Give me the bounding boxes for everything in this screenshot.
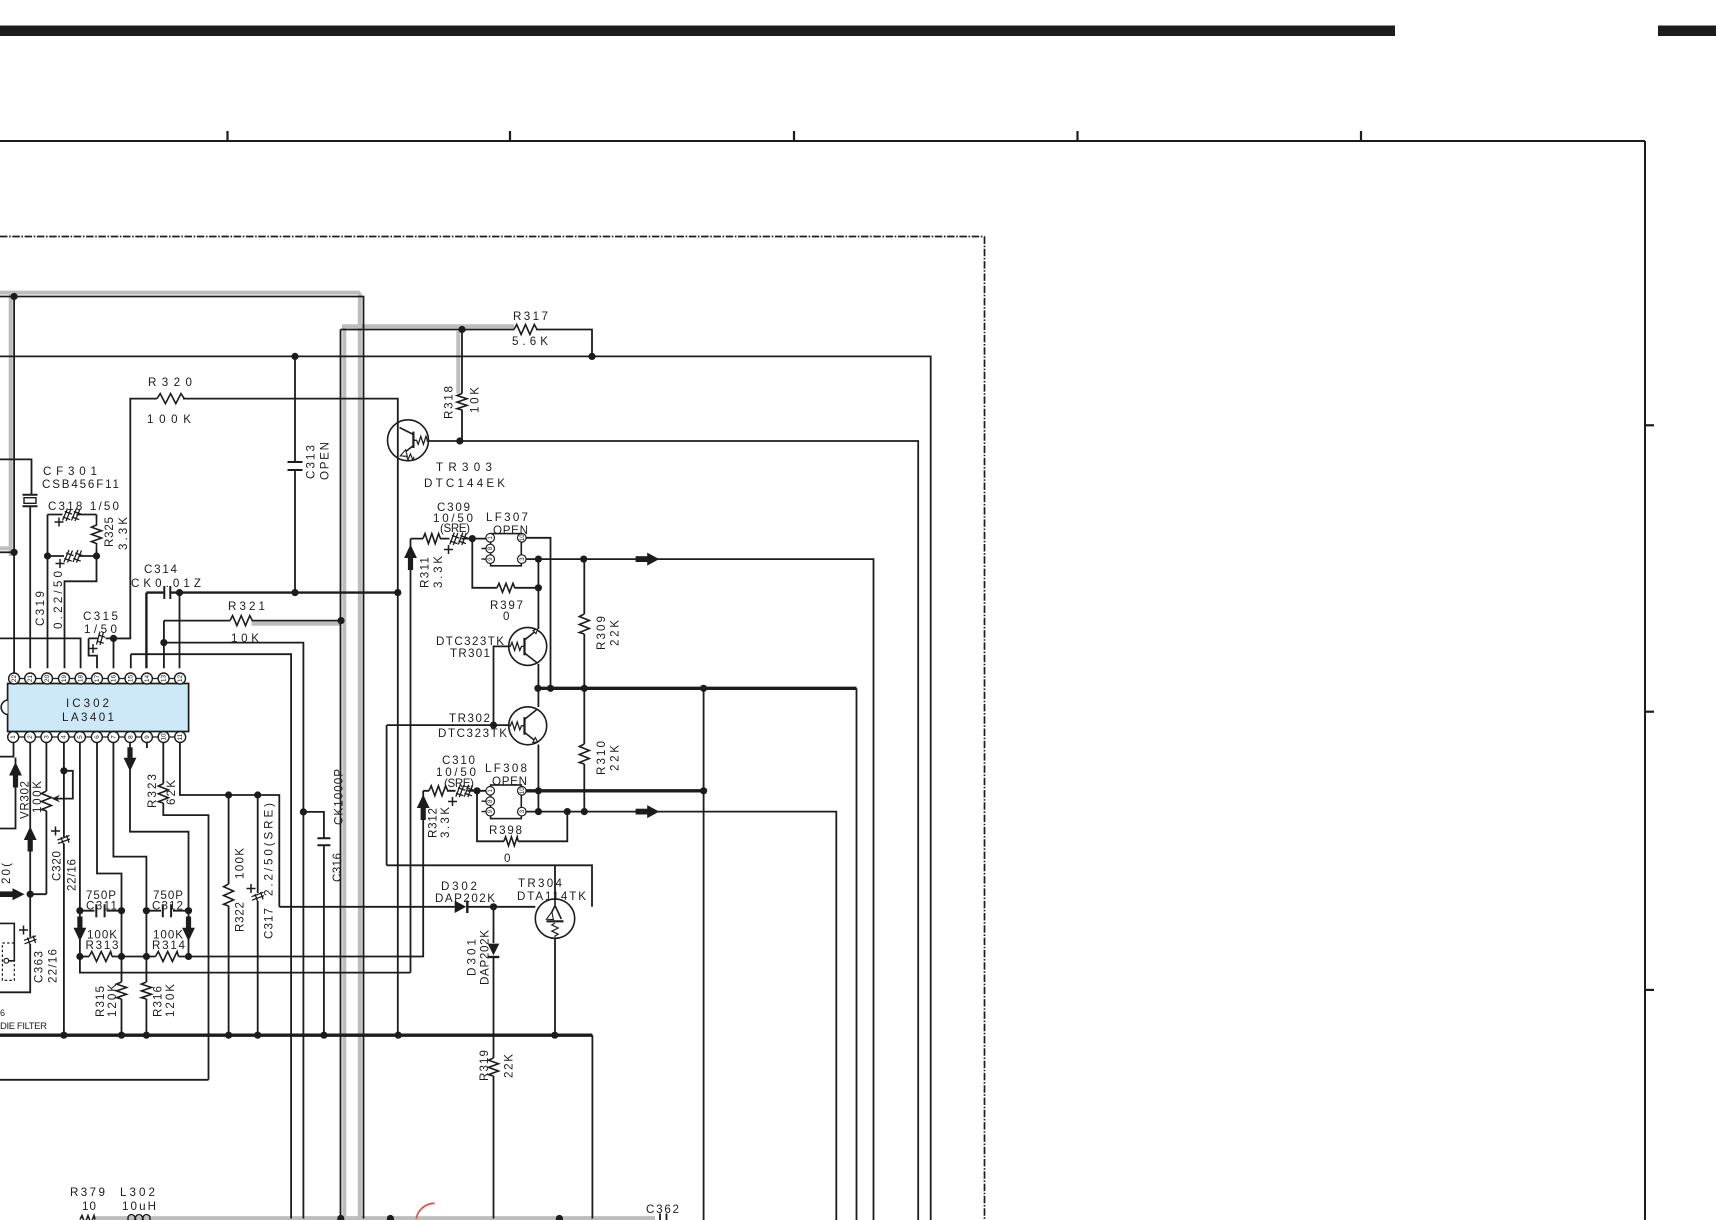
node C319 left [44,552,51,559]
svg-text:C316: C316 [331,853,344,882]
node R317 right [588,353,595,360]
svg-text:7: 7 [110,735,117,739]
capacitor C312 750P [163,904,171,917]
node bus C317 [254,1032,261,1039]
node C314 row end [394,589,401,596]
wire R316 [145,957,147,1036]
wire TR302 base drop to box [386,725,388,865]
wire pin9 stub [146,742,148,748]
wire R313 row [80,956,156,958]
capacitor C318 electrolytic [63,509,82,522]
svg-text:10uH: 10uH [122,1200,156,1213]
wire TR301 base L [494,646,509,725]
capacitor C363 electrolytic [24,936,37,945]
fold tick right 3 [1645,989,1654,991]
capacitor C313 OPEN ceramic [288,462,303,470]
capacitor C309 electrolytic [450,533,468,546]
IC302 bottom pin circles [8,732,186,743]
VR302 wiper arrowhead [52,795,61,803]
capacitor C320 electrolytic horizontal plates [58,835,71,844]
wire C315 jog [89,638,131,668]
svg-text:6: 6 [94,735,101,739]
resistor R315 120K vertical [117,982,127,999]
wire R321 row [164,621,341,669]
wire R315 [121,957,123,1036]
svg-text:22K: 22K [609,745,622,771]
svg-text:(SRE): (SRE) [444,777,474,790]
node R314 left [143,953,150,960]
node bus R322 [225,1032,232,1039]
node C319 right [93,552,100,559]
wire pin6 jog [97,742,122,911]
node LF308 pin3 R398 [564,808,571,815]
wire C318 loop [48,515,97,669]
inductor L302 [128,1215,150,1220]
svg-text:120K: 120K [164,984,177,1017]
svg-text:R319: R319 [478,1050,491,1081]
svg-text:22K: 22K [609,620,622,646]
arrow up R311 [404,545,417,571]
svg-text:10: 10 [520,787,526,794]
grey of bus A horizontal y326 [342,324,514,328]
wire pin18 long left line y638 [0,638,81,668]
wire C314 row dark [146,593,397,669]
capacitor C310 electrolytic [456,785,474,798]
variable resistor VR302 100K [41,791,51,811]
wire R322 [228,795,230,1035]
svg-text:17: 17 [94,675,101,683]
LF307 pin stubs [482,549,486,560]
node pin11 C317 [254,791,261,798]
svg-text:CK1000P: CK1000P [333,769,346,825]
arrow right signal out y811 [636,805,660,818]
wire D302 row [279,906,493,908]
resistor R397 0 [497,583,515,592]
svg-text:C362: C362 [646,1203,679,1216]
wire thick y790 LF308 pin10 [526,789,704,792]
resistor R312 3.3K [429,786,448,796]
node LF308 pin3 R310 [581,808,588,815]
wire C310 dot to R398 [477,791,567,842]
node C311 left [76,907,83,914]
wire TR304 emitter [554,865,556,899]
grey of R318 branch [456,331,460,394]
resistor R379 10 partial [80,1216,95,1220]
node D302 D301 [490,903,497,910]
node pin4 wiper [60,767,67,774]
svg-text:TR301: TR301 [450,647,490,660]
resistor R309 22K vertical [579,614,589,634]
resistor R310 22K vertical [579,744,589,764]
resistor R314 100K [156,952,179,962]
node bus C316 [320,1032,327,1039]
wire LF307 pin3 row y559 to right descent [526,559,874,1220]
svg-text:OPEN: OPEN [492,775,527,788]
node R318 top [458,326,465,333]
svg-text:TR302: TR302 [449,712,490,725]
pin number labels LF307 [488,534,526,561]
grey of bus B vertical x359.8 [358,293,362,1219]
node R309 top [580,556,587,563]
transistor TR304 DTA114TK [535,899,574,938]
svg-text:10: 10 [82,1200,96,1213]
grey of bus A vertical x344.3 [342,326,346,1218]
resistor R322 100K vertical [224,884,234,906]
wire pin14 pin12 stubs [179,593,181,669]
node C312 left [143,907,150,914]
svg-text:C318 1/50: C318 1/50 [48,500,119,513]
wire TR304 collector [554,938,556,1035]
node bus TR303 line [395,1032,402,1039]
wire crystal to pin21 [29,507,31,668]
crystal CF301 CSB456F11 [23,495,38,507]
inner dash-dot border right [984,237,986,1220]
wire TR302 collector [537,688,539,707]
svg-text:20(: 20( [0,863,13,884]
svg-text:10: 10 [161,733,168,741]
vertical labels [0,386,622,1081]
node bus y552 [11,549,18,556]
svg-text:LF307: LF307 [486,511,528,524]
arrow up pin2 [24,827,37,852]
wire pin22 bus vertical [13,297,15,674]
node R313 right [118,953,125,960]
svg-text:R325: R325 [103,517,116,547]
svg-text:15: 15 [128,675,135,683]
pin number labels IC302 top [11,675,184,683]
wire TR304 box top [387,865,592,907]
wire TR303 collector row y441 [427,441,919,1220]
capacitor C316 CK1000P [317,838,330,845]
resistor R319 22K vertical [489,1058,499,1076]
resistor R318 10K vertical [457,394,467,410]
wire C311 row [80,910,122,912]
node C312 right [185,907,192,914]
svg-text:19: 19 [61,675,68,683]
node thick bus R309 [581,685,588,692]
wire LF307 pin10 to thick bus [526,538,551,689]
red revision arc [416,1203,434,1218]
node thick bus x703 [700,685,707,692]
wire x703.6 vertical [703,688,705,1220]
wire pin10 R323 [0,742,209,1080]
svg-text:8: 8 [127,735,134,739]
svg-text:CSB456F11: CSB456F11 [42,478,119,491]
capacitor C311 750P [96,904,104,917]
grey of top-left bus y296 [0,291,360,295]
svg-text:22: 22 [11,675,18,683]
svg-text:C311: C311 [86,900,117,913]
svg-text:12: 12 [177,675,184,683]
svg-text:IC302: IC302 [66,697,109,710]
node C315 pin16 [110,635,117,642]
thick signal wires [0,688,857,1035]
svg-text:R312: R312 [427,808,440,838]
wire pin1 exit [0,742,14,757]
svg-text:1/50: 1/50 [84,623,117,636]
svg-text:10K: 10K [469,387,482,413]
wire thick bus descent [591,1035,593,1218]
grey of R321 wire [252,622,342,626]
svg-text:21: 21 [27,675,34,683]
wire C313 vertical [294,356,296,592]
resistor R316 120K vertical [141,982,151,999]
grey bottom power bus [95,1216,656,1220]
node thick bus LF307 [547,685,554,692]
die filter component box left edge [0,923,14,980]
wire TR301 emitter vertical [537,559,539,629]
node bottom bus busA [337,1215,344,1220]
wire bus A top y329 to R317 [341,330,515,1219]
capacitor C319 electrolytic [64,550,83,563]
svg-text:DIE FILTER: DIE FILTER [0,1021,47,1032]
wire VR302 pin3 [30,742,46,894]
node C309 out [469,535,476,542]
svg-text:120K: 120K [106,984,119,1017]
node C310 out [473,787,480,794]
wire y552 stub to pin22 bus [0,551,14,553]
wire VR302 wiper loop [56,771,73,799]
svg-text:3.3K: 3.3K [432,556,445,588]
svg-text:R313: R313 [86,939,119,952]
outer border right line [1644,141,1646,1220]
inner dash-dot border top [0,236,985,238]
wire C311 C312 verticals with arrows [80,911,189,957]
svg-text:9: 9 [144,735,151,739]
arrow up R312 [417,795,430,821]
wire R318 vertical [461,330,463,442]
wire R320 left + long vertical to ground bus [114,399,398,1036]
IC302 LA3401 body [1,684,188,732]
svg-text:LF308: LF308 [485,762,527,775]
capacitor C315 electrolytic [97,632,106,646]
svg-text:C312: C312 [152,900,183,913]
wire R312 C310 row [423,790,485,792]
svg-text:10K: 10K [231,632,259,645]
svg-text:C320: C320 [51,851,64,881]
wire C317 [257,795,259,1035]
node C313 top [291,353,298,360]
LF308 OPEN block [491,785,522,819]
transistor TR302 DTC323TK [509,707,547,745]
svg-text:100K: 100K [234,848,247,879]
resistor R321 10K [230,616,252,626]
node pin2 y894 [27,891,34,898]
wire pin15 branch y654 [131,654,291,1218]
wire pin16 stub [113,638,115,668]
svg-text:R311: R311 [419,557,432,588]
IC302 pin row connectors [8,679,185,738]
node R321 bus A [337,617,344,624]
svg-text:62K: 62K [165,780,178,805]
LF308 pin stubs [482,801,486,811]
arrow up pin1 aux [9,762,22,788]
svg-text:R316: R316 [152,986,165,1017]
wire y972 row [80,957,411,973]
svg-text:14: 14 [144,675,151,683]
fold tick top 3 [793,131,795,141]
node TR301 emitter R397 [535,584,542,591]
node bus R316 [143,1032,150,1039]
fold tick right 2 [1645,711,1654,713]
node bus TR304 [551,1032,558,1039]
resistor R311 3.3K [423,534,440,544]
svg-text:3.3K: 3.3K [117,517,130,550]
node bottom bus x559 [556,1215,563,1220]
svg-text:R318: R318 [443,386,456,419]
svg-text:100K: 100K [31,781,44,813]
node C311 right [118,907,125,914]
node R313 left [76,953,83,960]
top black bar right [1658,26,1716,37]
wire thick y688 [538,687,857,690]
resistor R398 0 [504,837,518,846]
capacitor C317 electrolytic [252,892,265,901]
fold tick top 4 [1076,131,1078,141]
svg-text:2: 2 [27,735,34,739]
node R314 right [185,953,192,960]
node TR302 emitter thick [535,787,542,794]
wire y459 to crystal CF301 [0,459,32,494]
grey of pin22 bus vertical [9,293,13,556]
wire y356 long line [0,356,931,1220]
svg-text:22K: 22K [503,1054,516,1078]
pin number labels IC302 bottom [10,733,184,741]
svg-text:VR302: VR302 [19,781,32,819]
node bus C320 [60,1032,67,1039]
wire R317 right to y356 [536,330,592,357]
svg-text:18: 18 [78,675,85,683]
svg-text:6: 6 [0,1008,5,1018]
svg-text:C317: C317 [263,908,276,939]
wire pin5 [79,742,81,911]
arrow down C311 [74,917,87,942]
svg-text:22/16: 22/16 [47,949,60,983]
svg-text:16: 16 [111,675,118,683]
svg-text:3: 3 [43,735,50,739]
node top bus left [11,293,18,300]
wire TR302 base row [387,724,509,726]
fold tick right 1 [1645,424,1654,426]
resistor R320 100K [157,394,184,404]
svg-text:DAP202K: DAP202K [479,930,492,985]
arrow right into pin2 node [0,888,25,900]
wire C309 junction down to R397 [472,539,538,588]
wire R314 row to R312 vertical [179,791,424,957]
resistor R325 3.3K vertical [92,519,102,549]
arrow down pin8 [124,747,137,771]
fold tick top 1 [226,131,228,141]
svg-text:0: 0 [503,610,509,623]
top black bar left [0,26,1395,37]
transistor TR303 DTC144EK [388,420,429,461]
wire thick ground bus y1035 [0,1033,592,1036]
svg-text:C363: C363 [33,951,46,983]
wire pin13 branch y642 [164,643,304,1219]
wire TR301 collector to thick bus [537,664,539,689]
pin number labels LF308 [488,787,526,813]
LF307 OPEN block [491,534,522,566]
node C313 bottom [291,589,298,596]
node LF307 pin3 TR301 [535,556,542,563]
diode D301 DAP202K [488,944,500,957]
svg-text:DTC323TK: DTC323TK [438,727,507,740]
wire C312 row [146,910,188,912]
node TR301 base TR302 base [490,722,497,729]
svg-text:10: 10 [520,534,526,541]
wire pin11 row [180,742,279,907]
resistor R323 62K vertical [158,784,168,803]
grey of y552 stub [0,546,11,550]
transistor TR301 DTC323TK [509,627,547,665]
wire TR302 emitter down [537,745,539,812]
svg-text:R398: R398 [489,824,522,837]
wire x856 descent [856,688,858,1220]
fold tick top 5 [1360,131,1362,141]
wire C316 branch [303,812,324,1035]
wire R309 R310 vertical [583,559,585,812]
svg-text:1: 1 [10,735,17,739]
arrow right signal out y559 [636,553,660,566]
svg-text:TR304: TR304 [518,877,563,890]
svg-text:11: 11 [177,733,184,740]
resistor R317 5.6K [514,325,537,335]
node bus R315 [118,1032,125,1039]
svg-text:3.3K: 3.3K [439,807,452,838]
node LF308 pin3 TR302 [535,808,542,815]
wire pin8 jog [130,742,189,911]
wire D301 R319 vertical [493,907,495,1219]
wire pin2 line [0,742,30,992]
capacitor C362 [660,1214,667,1220]
IC302 top pin circles [9,673,186,684]
wire R325 branch [65,515,97,669]
svg-text:0: 0 [504,852,510,865]
svg-text:5: 5 [77,735,84,739]
wire pin7 jog [113,742,146,911]
wire top bus y296 [0,297,364,1219]
node bottom bus x390 [387,1215,394,1220]
diode D302 DAP202K [455,901,468,913]
wire arrow into dot y894 [0,893,13,895]
node R318 bottom [456,437,463,444]
node thick y790 x703 [700,787,707,794]
svg-text:20: 20 [44,675,51,683]
node pin11 R322 [225,791,232,798]
svg-text:5.6K: 5.6K [512,335,548,348]
wire LF308 pin3 row [526,812,837,1220]
node thick bus TR301 [534,685,541,692]
svg-text:(SRE): (SRE) [440,522,470,535]
wire pin4 C320 [63,742,65,1035]
svg-text:13: 13 [161,675,168,683]
arrow down C312R [182,917,195,942]
wire R311 C309 row y538.6 [411,538,486,540]
svg-text:22/16: 22/16 [66,859,79,891]
resistor R313 100K [89,952,112,962]
node C316 branch [300,808,307,815]
capacitor C314 CK0.01Z [164,586,170,599]
node C314 right [176,589,183,596]
node pin13 branch [160,639,167,646]
wire R311 arrow vertical x410.5 [410,539,412,973]
outer border top line [0,140,1645,142]
svg-text:DTA114TK: DTA114TK [517,890,586,903]
wire pin1 arrow aux [0,758,16,829]
svg-text:4: 4 [61,735,68,739]
svg-text:R322: R322 [234,902,247,932]
fold tick top 2 [509,131,511,141]
